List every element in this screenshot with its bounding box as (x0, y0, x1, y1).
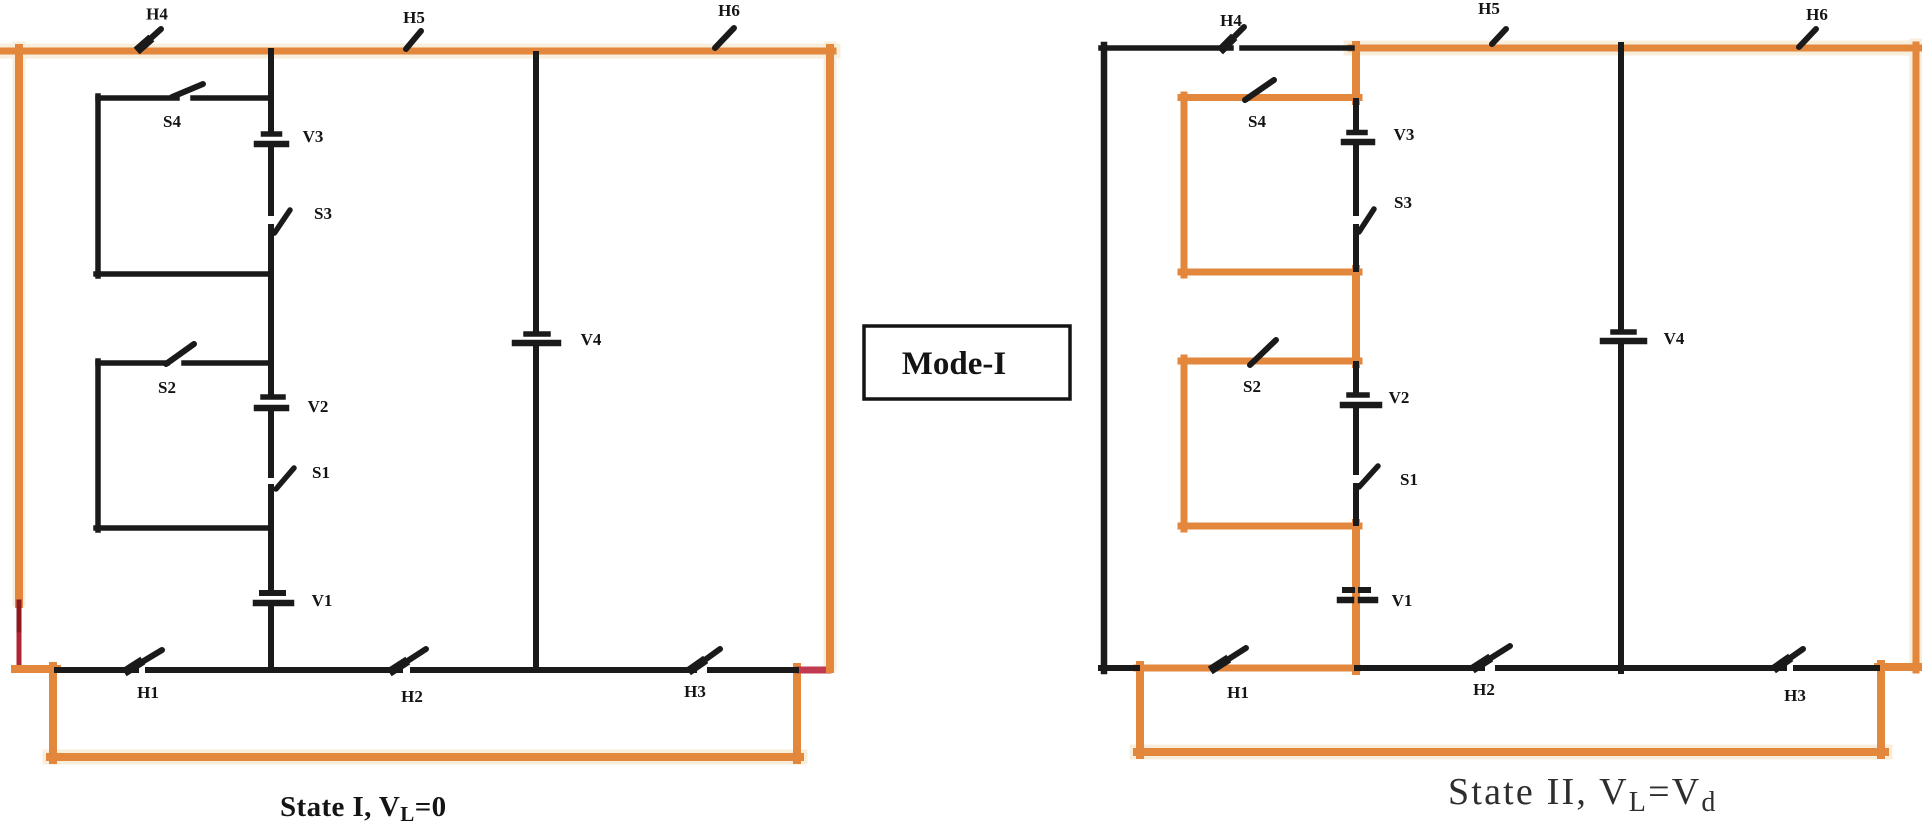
wire left vertical bus (black) (1101, 45, 1108, 671)
wire bottom bus seg1 (57, 667, 136, 673)
switch H3 blade (open) (1776, 649, 1803, 668)
wire top bus mid part (1242, 45, 1352, 51)
wire orange top bus (through H4,H5,H6) (0, 48, 833, 55)
wire middle branch top (top bus to V3) (268, 51, 274, 132)
wire orange right jog (1878, 663, 1919, 671)
wire S3 to loop bottom (1353, 227, 1359, 269)
capacitor V2 (1349, 392, 1367, 398)
wire orange top bus right part (through H5,H6) (1351, 45, 1919, 52)
wire V4 branch top (533, 54, 539, 331)
wire orange right vertical bus (826, 48, 834, 669)
switch S4 blade (closed) (1245, 80, 1274, 100)
wire orange left vertical bus (15, 48, 23, 604)
wire S2 loop top-right (184, 360, 271, 366)
mode box (864, 326, 1070, 399)
svg-text:Mode-I: Mode-I (902, 346, 1006, 382)
wire S3 down through junctions (268, 227, 274, 393)
switch H6 blade (closed) (1799, 29, 1816, 47)
svg-text:S1: S1 (1400, 470, 1418, 489)
switch S3 (open) (1359, 209, 1374, 232)
wire orange S4 loop left (1181, 95, 1188, 275)
svg-text:H4: H4 (1220, 11, 1242, 30)
wire orange S4 loop bottom (1181, 269, 1359, 276)
switch S1 (open) (1359, 466, 1378, 487)
wire V3 to S3 (1353, 145, 1359, 213)
wire top bus left part (1101, 45, 1231, 51)
wire orange right drop (793, 667, 801, 760)
wire S4 loop left (95, 96, 101, 276)
wire V4 branch top (1618, 45, 1624, 329)
svg-text:H2: H2 (1473, 680, 1495, 699)
svg-text:V1: V1 (1392, 591, 1413, 610)
wire orange S2 loop top (1181, 358, 1359, 365)
wire S4 loop top-right (193, 95, 271, 101)
switch S1 (open) (276, 468, 294, 489)
wire orange left riser (1136, 665, 1144, 755)
wire S1 down to V1 (268, 487, 274, 590)
wire V1 to bottom bus (268, 606, 274, 670)
wire S4 loop top-left (98, 95, 177, 101)
wire V4 branch bottom (1618, 344, 1624, 671)
svg-text:H3: H3 (684, 682, 706, 701)
capacitor V3 (1349, 130, 1365, 136)
battery V1 right dashes (1361, 587, 1368, 593)
svg-text:S2: S2 (158, 378, 176, 397)
svg-text:S2: S2 (1243, 377, 1261, 396)
capacitor V2 (263, 394, 283, 400)
svg-text:V2: V2 (308, 397, 329, 416)
svg-text:V4: V4 (581, 330, 602, 349)
switch H4 blade (open) (1222, 27, 1244, 49)
switch H5 blade (closed) (1492, 29, 1506, 44)
battery V4 (1613, 329, 1634, 335)
wire bottom bus seg3 (413, 667, 694, 673)
wire orange bottom bus segment (through H1) (1137, 665, 1357, 672)
wire V2 to S1 (1353, 408, 1359, 472)
svg-text:H1: H1 (137, 683, 159, 702)
wire S2 loop bottom (96, 525, 271, 531)
switch S3 (open) (275, 210, 291, 233)
svg-text:H2: H2 (401, 687, 423, 706)
svg-text:State II, VL=Vd: State II, VL=Vd (1448, 771, 1718, 818)
wire bottom bus seg4 (1796, 665, 1877, 671)
switch H6 blade (closed) (715, 28, 734, 48)
svg-text:H1: H1 (1227, 683, 1249, 702)
wire orange S2 loop left (1181, 358, 1188, 529)
wire orange S4 loop top (1181, 94, 1359, 101)
wire S2 loop left (95, 361, 101, 530)
wire orange stack riser middle (1352, 269, 1360, 364)
svg-text:S4: S4 (163, 112, 181, 131)
svg-text:H6: H6 (718, 1, 740, 20)
svg-text:V4: V4 (1664, 329, 1685, 348)
wire bottom bus seg2 (148, 667, 400, 673)
wire bottom bus stub left (1101, 665, 1137, 671)
svg-text:V2: V2 (1389, 388, 1410, 407)
wire S4 loop bottom (96, 271, 271, 277)
wire bottom bus seg4 (710, 667, 796, 673)
wire V3 to S3 (268, 147, 274, 213)
svg-text:S1: S1 (312, 463, 330, 482)
wire orange left drop (49, 666, 57, 760)
svg-text:H6: H6 (1806, 5, 1828, 24)
svg-text:H5: H5 (1478, 0, 1500, 18)
wire bottom bus seg2 (1357, 665, 1482, 671)
wire orange left jog (15, 665, 57, 673)
svg-text:V1: V1 (312, 591, 333, 610)
wire orange right vertical bus (1913, 45, 1920, 670)
battery V4 (526, 331, 548, 337)
svg-text:S4: S4 (1248, 112, 1266, 131)
switch H2 blade (open) (1475, 646, 1510, 668)
wire V3 branch top stub (1353, 101, 1359, 130)
switch S2 blade (closed) (1250, 340, 1276, 365)
svg-text:V3: V3 (1394, 125, 1415, 144)
wire orange bottom return (50, 753, 800, 761)
svg-text:H3: H3 (1784, 686, 1806, 705)
switch H2 blade (open) (392, 649, 426, 671)
battery V1 left dashes (1345, 587, 1352, 593)
svg-text:H5: H5 (403, 8, 425, 27)
battery V1 (262, 590, 283, 596)
switch H5 blade (closed) (406, 31, 421, 49)
wire maroon segment left bus (17, 602, 22, 637)
wire crimson right jog (799, 667, 828, 674)
svg-text:State I, VL=0: State I, VL=0 (280, 791, 447, 825)
switch H3 blade (open) (691, 649, 720, 670)
wire crimson segment left bus (17, 635, 22, 667)
wire V4 branch bottom (533, 346, 539, 670)
switch S2 blade (open) (166, 344, 194, 364)
wire orange stack riser bottom (through V1) (1352, 523, 1360, 671)
capacitor V3 (264, 131, 280, 137)
wire orange right drop (1877, 664, 1885, 755)
switch S4 blade (open) (172, 84, 203, 97)
wire V2 to S1 (268, 411, 274, 475)
svg-text:S3: S3 (1394, 193, 1412, 212)
switch H1 blade (closed) (1213, 648, 1246, 669)
svg-text:S3: S3 (314, 204, 332, 223)
wire orange stack riser top (1352, 45, 1360, 101)
wire orange bottom return (1137, 748, 1885, 756)
switch H1 blade (open) (127, 650, 162, 671)
wire V2 branch top stub (1353, 364, 1359, 392)
wire S2 loop top-left (98, 360, 167, 366)
svg-text:H4: H4 (146, 5, 168, 24)
svg-text:V3: V3 (303, 127, 324, 146)
wire orange S2 loop bottom (1181, 523, 1359, 530)
switch H4 blade (closed) (139, 29, 161, 49)
wire bottom bus seg3 (1498, 665, 1784, 671)
wire S1 to loop bottom (1353, 486, 1359, 523)
